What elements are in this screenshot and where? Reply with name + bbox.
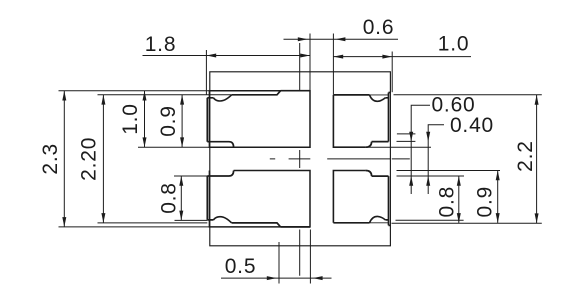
centerline vertical <box>299 43 301 276</box>
extension line 1.8 left <box>205 50 207 95</box>
centerline horizontal <box>270 158 410 160</box>
extension line 1.0/0.9 bottom <box>138 146 209 148</box>
pad P4 terminal (bottom-right) <box>333 171 391 226</box>
extension line 2.20 bottom <box>98 222 208 224</box>
extension line 2.2 bottom <box>392 222 542 224</box>
pad P2 fillet <box>214 217 232 223</box>
pad P3 thin edge overlay <box>370 94 389 96</box>
arrows 0.60 leader <box>409 132 413 142</box>
arrows 1.8 <box>206 54 216 58</box>
arrows 0.9 left <box>180 95 184 105</box>
dim line 2.20 <box>102 95 104 223</box>
svg-text:0.5: 0.5 <box>225 255 257 278</box>
svg-text:0.8: 0.8 <box>435 186 458 218</box>
dim line 0.9 right <box>497 171 499 223</box>
pad P1 fillet <box>214 95 232 101</box>
component outline (courtyard rectangle) <box>210 72 391 246</box>
extension line 2.2 top <box>394 94 542 96</box>
leader 0.40 <box>428 125 444 194</box>
arrows 2.3 <box>62 91 66 101</box>
svg-text:0.9: 0.9 <box>157 105 180 137</box>
pad P2 terminal (bottom-left) <box>207 171 280 227</box>
extension line land gap top <box>367 146 431 148</box>
pad P3 fillet <box>370 95 386 101</box>
dim line 1.0 top <box>333 56 471 58</box>
dim line 0.8 left <box>180 176 182 220</box>
leader 0.60 <box>411 105 430 194</box>
arrows 1.0 top <box>333 55 343 59</box>
extension line 0.5 left <box>278 242 280 284</box>
svg-text:0.8: 0.8 <box>158 182 181 214</box>
svg-text:1.0: 1.0 <box>119 103 142 135</box>
arrows 0.6 (outside) <box>298 37 308 41</box>
pad P2 land (bottom-left) <box>209 171 310 227</box>
svg-text:0.9: 0.9 <box>474 186 497 218</box>
extension tick terminal gap top <box>397 140 416 142</box>
arrows 1.0 left <box>143 91 147 101</box>
arrows 2.2 <box>535 95 539 105</box>
extension line 1.0 right <box>391 52 393 93</box>
extension line 1.8/0.6 right <box>309 34 311 91</box>
arrows 0.40 leader <box>426 132 430 142</box>
pad P2 land bottom stub <box>281 226 310 228</box>
dim line 0.8 right <box>458 176 460 223</box>
pad P3 land (top-right) <box>333 95 365 147</box>
extension tick 0.8 left bottom <box>175 219 208 221</box>
dim line 2.2 right <box>536 95 538 223</box>
pad P1 terminal (top-left) <box>207 91 280 148</box>
dim line 2.3 <box>63 91 65 227</box>
extension line 2.3/1.0 top <box>59 90 282 92</box>
pad P3 terminal (top-right) <box>333 93 391 148</box>
dim line 0.9 left <box>181 95 183 147</box>
dim line 1.8 <box>143 55 311 57</box>
arrows 0.8 right <box>457 176 461 186</box>
extension line 2.3 bottom <box>59 226 210 228</box>
pad P4 thin edge overlay <box>370 222 389 224</box>
pad P1 land (top-left) <box>209 91 310 148</box>
extension line land gap bottom / 0.9 right top <box>397 170 501 172</box>
dim line 0.6 <box>284 38 399 40</box>
arrowheads <box>62 37 538 280</box>
svg-text:2.3: 2.3 <box>39 143 62 175</box>
svg-text:1.8: 1.8 <box>145 33 177 56</box>
svg-text:2.2: 2.2 <box>514 140 537 172</box>
extension tick arrow base <box>397 133 416 135</box>
svg-text:2.20: 2.20 <box>78 137 101 181</box>
extension tick 0.8/0.9 right bottom <box>396 219 464 221</box>
arrows 2.20 <box>101 95 105 105</box>
arrows 0.9 right <box>496 171 500 181</box>
svg-text:1.0: 1.0 <box>438 32 470 55</box>
extension line 2.20/0.9 top <box>98 94 232 96</box>
dim line 0.5 bottom <box>221 277 332 279</box>
arrows 0.5 (outside) <box>267 276 277 280</box>
svg-text:0.6: 0.6 <box>363 16 395 39</box>
extension line 0.6/1.0 left <box>332 34 334 95</box>
extension line terminal gap bottom / 0.8 right top <box>397 175 465 177</box>
pad P4 land (bottom-right) <box>333 171 365 223</box>
pad P4 fillet <box>370 216 386 222</box>
extension line 0.5 right <box>309 230 311 284</box>
extension line 0.8 left top <box>174 175 207 177</box>
dim line 1.0 left <box>144 91 146 148</box>
arrows 0.8 left <box>179 176 183 186</box>
svg-text:0.40: 0.40 <box>450 114 494 137</box>
pad P1 land top stub <box>281 90 310 92</box>
